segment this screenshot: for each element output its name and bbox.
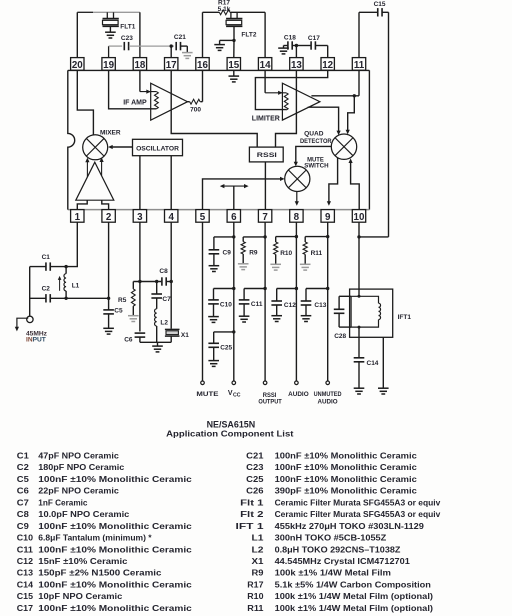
svg-text:C28: C28 <box>334 333 346 340</box>
svg-text:10pF NPO Ceramic: 10pF NPO Ceramic <box>38 592 123 601</box>
label LIMITER <box>252 115 280 122</box>
component list row C1 <box>17 452 120 461</box>
wire pin 4 down to crystal <box>170 222 173 329</box>
svg-text:R11: R11 <box>247 604 264 613</box>
svg-text:AUDIO: AUDIO <box>288 391 309 398</box>
capacitor C7 <box>151 282 171 309</box>
svg-text:CC: CC <box>233 393 241 399</box>
wire pin 3 down <box>139 222 141 331</box>
svg-text:MIXER: MIXER <box>100 129 121 136</box>
resistor limiter internal feedback <box>284 93 288 110</box>
capacitor C15 <box>359 1 389 237</box>
component list row C26 <box>246 487 417 496</box>
svg-text:Ceramic Filter Murata SFG455A3: Ceramic Filter Murata SFG455A3 or equiv <box>275 510 441 519</box>
svg-text:DETECTOR: DETECTOR <box>300 138 332 145</box>
ground left of C18 <box>278 48 289 54</box>
wire pin 5 to MUTE terminal <box>201 222 205 384</box>
wire amp to pin 1 <box>77 200 87 209</box>
ground left of pin 15 <box>214 45 225 51</box>
svg-text:100k ±1% 1/4W Metal Film (opti: 100k ±1% 1/4W Metal Film (optional) <box>275 604 434 613</box>
svg-text:8: 8 <box>294 212 300 223</box>
svg-text:3: 3 <box>137 212 143 223</box>
pin 4 <box>165 210 178 223</box>
wire pin 6 stub with double arrow <box>220 184 249 210</box>
wire pin 1 to input tank <box>64 222 77 268</box>
wire input left rail <box>29 267 31 317</box>
svg-text:C13: C13 <box>17 569 34 578</box>
pin 15 <box>227 58 240 71</box>
svg-text:C7: C7 <box>17 498 30 507</box>
wire node to quad detector right input <box>346 96 355 135</box>
wire amp to mixer arrows <box>85 157 103 177</box>
svg-text:C1: C1 <box>17 452 30 461</box>
wire pin 6 to VCC terminal <box>232 222 236 384</box>
resistor R5 <box>118 282 135 316</box>
node FLT2/pin15 junction <box>232 39 235 58</box>
capacitor C5 <box>103 298 123 328</box>
wire oscillator bottom node <box>140 342 171 346</box>
svg-text:L2: L2 <box>252 545 265 554</box>
svg-text:IF AMP: IF AMP <box>123 100 147 107</box>
mute switch circle <box>285 166 310 191</box>
wire quad detector output to pin 9 <box>327 158 338 206</box>
resistor R17 5.1k <box>203 0 266 58</box>
label MUTE SWITCH <box>304 157 329 170</box>
svg-text:IFT 1: IFT 1 <box>236 522 265 531</box>
svg-text:Ceramic Filter Murata SFG455A3: Ceramic Filter Murata SFG455A3 or equiv <box>275 498 441 507</box>
pin 9 <box>321 210 334 223</box>
wire mute switch output to pin 8 <box>295 192 299 206</box>
svg-text:X1: X1 <box>181 332 189 339</box>
ground under C25 <box>208 361 219 367</box>
svg-text:OUTPUT: OUTPUT <box>258 398 282 405</box>
svg-text:L1: L1 <box>252 534 265 543</box>
pin 8 <box>290 210 303 223</box>
component list row C12 <box>17 557 128 566</box>
svg-text:15: 15 <box>228 60 239 71</box>
svg-text:C23: C23 <box>246 463 264 472</box>
svg-text:Application Component List: Application Component List <box>166 428 293 438</box>
svg-text:R5: R5 <box>118 297 127 304</box>
wire pin 2 down <box>107 222 110 300</box>
ground under C10 <box>208 317 219 323</box>
ground under C11 <box>239 316 250 322</box>
component list row C8 <box>17 510 130 519</box>
component list row C6 <box>17 487 120 496</box>
node pin 13 top junction <box>295 44 298 58</box>
ground under C12 <box>271 316 282 322</box>
node 45MHz input terminal <box>27 316 33 322</box>
svg-text:C15: C15 <box>374 1 386 8</box>
inductor L1 <box>64 267 80 299</box>
svg-text:L1: L1 <box>72 282 80 289</box>
svg-text:IFT1: IFT1 <box>398 314 412 321</box>
ground under R9 <box>238 264 249 270</box>
input amp triangle <box>76 162 114 200</box>
svg-text:5.1k: 5.1k <box>218 6 231 13</box>
pin 13 <box>290 58 303 71</box>
component list row X1 <box>252 557 411 566</box>
svg-text:100nF ±10% Monolithic Ceramic: 100nF ±10% Monolithic Ceramic <box>275 452 418 461</box>
wire pin 8 to AUDIO terminal <box>295 222 299 384</box>
op-amp LIMITER triangle <box>282 83 320 120</box>
pin 6 <box>227 210 240 223</box>
wire RSSI output to pin 7 <box>264 162 266 210</box>
svg-text:C11: C11 <box>17 545 34 554</box>
wire pin 9 to UNMUTED AUDIO terminal <box>326 222 330 384</box>
component list row R11 <box>247 604 433 613</box>
crystal X1 <box>165 329 189 342</box>
svg-text:C17: C17 <box>17 604 34 613</box>
svg-text:6.8μF Tantalum (minimum) *: 6.8μF Tantalum (minimum) * <box>38 534 152 543</box>
label AUDIO <box>288 391 309 398</box>
svg-text:C1: C1 <box>42 254 51 261</box>
wire pin 11 to limiter output node <box>311 70 359 97</box>
svg-text:100nF ±10% Monolithic Ceramic: 100nF ±10% Monolithic Ceramic <box>275 475 418 484</box>
svg-text:Flt 2: Flt 2 <box>240 510 264 519</box>
label 45MHz INPUT <box>26 330 48 343</box>
capacitor C8 <box>159 268 171 286</box>
wire pin 17 to RSSI left lead <box>171 70 257 147</box>
svg-text:SWITCH: SWITCH <box>304 163 329 170</box>
capacitor C18 <box>284 35 297 50</box>
svg-text:R10: R10 <box>280 250 292 257</box>
wire pin 5 to mute switch arrow <box>203 177 285 210</box>
wire pin 19 to IF amp lower input <box>109 70 157 108</box>
component list row Flt 1 <box>240 498 441 507</box>
ground under C13 <box>301 316 312 322</box>
svg-text:180pF NPO Ceramic: 180pF NPO Ceramic <box>38 463 125 472</box>
component list row C21 <box>246 452 417 461</box>
op-amp U1 IC body outline NE/SA615N <box>68 70 370 209</box>
svg-text:C9: C9 <box>223 250 232 257</box>
svg-text:390pF ±10% Monolithic Ceramic: 390pF ±10% Monolithic Ceramic <box>275 487 418 496</box>
wire pin 12 to limiter lower input <box>255 70 327 109</box>
capacitor C2 <box>30 286 66 303</box>
capacitor C11 <box>239 289 265 317</box>
svg-text:C15: C15 <box>17 592 34 601</box>
wire pin 7 to RSSI OUTPUT terminal <box>263 222 267 384</box>
pin 14 <box>258 58 271 71</box>
capacitor C17 <box>296 35 327 58</box>
ceramic filter FLT1 <box>103 12 136 32</box>
capacitor C13 <box>301 289 328 316</box>
capacitor C21 <box>174 34 187 53</box>
svg-text:10.0pF NPO Ceramic: 10.0pF NPO Ceramic <box>38 510 130 519</box>
capacitor C28 <box>334 296 351 340</box>
ground oscillator network <box>152 346 163 352</box>
svg-text:C12: C12 <box>17 557 34 566</box>
label MUTE <box>196 391 219 398</box>
pin 10 <box>352 210 365 223</box>
capacitor C12 <box>271 289 296 316</box>
svg-text:INPUT: INPUT <box>26 336 46 343</box>
svg-text:5.1k ±5% 1/4W Carbon Compositi: 5.1k ±5% 1/4W Carbon Composition <box>275 580 431 589</box>
ground under R10 <box>270 264 281 270</box>
svg-text:C14: C14 <box>17 580 34 589</box>
svg-text:RSSI: RSSI <box>257 152 277 159</box>
wire top rail pin20-pin18 <box>77 11 140 13</box>
pin 12 <box>321 58 334 71</box>
pin 11 <box>352 58 365 71</box>
svg-text:R9: R9 <box>252 569 265 578</box>
wire L1 tuning arrow <box>58 276 62 291</box>
component list row C17 <box>17 604 193 613</box>
svg-text:FLT2: FLT2 <box>241 32 256 39</box>
label UNMUTED AUDIO <box>314 391 342 405</box>
svg-text:1nF Ceramic: 1nF Ceramic <box>38 498 88 507</box>
component list row R9 <box>252 569 392 578</box>
svg-text:R17: R17 <box>247 580 264 589</box>
wire ground tap left of FLT2 <box>220 40 234 44</box>
pin 5 <box>196 210 209 223</box>
svg-text:C6: C6 <box>124 336 133 343</box>
resistor R9 <box>241 237 265 264</box>
component list row C15 <box>17 592 123 601</box>
svg-text:R9: R9 <box>249 250 258 257</box>
component list row L1 <box>252 534 387 543</box>
pin 2 <box>102 210 115 223</box>
svg-text:15nF ±10% Ceramic: 15nF ±10% Ceramic <box>38 557 128 566</box>
svg-text:4: 4 <box>168 212 174 223</box>
label Application Component List <box>166 428 293 438</box>
svg-text:R10: R10 <box>247 592 264 601</box>
capacitor C1 <box>30 254 66 271</box>
component list row C13 <box>17 569 162 578</box>
capacitor C9 <box>209 237 234 266</box>
svg-text:2: 2 <box>106 212 112 223</box>
svg-text:C6: C6 <box>17 487 30 496</box>
pin 1 <box>71 210 84 223</box>
svg-text:20: 20 <box>72 60 83 71</box>
svg-text:AUDIO: AUDIO <box>318 398 338 405</box>
svg-text:X1: X1 <box>252 557 265 566</box>
svg-text:1: 1 <box>75 212 81 223</box>
svg-text:300nH TOKO #5CB-1055Z: 300nH TOKO #5CB-1055Z <box>275 534 387 543</box>
mixer circle <box>83 135 108 160</box>
svg-text:14: 14 <box>260 60 271 71</box>
svg-text:22pF NPO Ceramic: 22pF NPO Ceramic <box>38 487 119 496</box>
label IF AMP <box>123 100 147 107</box>
svg-text:10: 10 <box>354 212 365 223</box>
component list row L2 <box>252 545 401 554</box>
pin 17 <box>165 58 178 71</box>
component list row C9 <box>17 522 193 531</box>
wire input arrow <box>15 318 28 331</box>
svg-text:MUTE: MUTE <box>196 391 219 398</box>
ground pin 15 internal <box>229 70 240 82</box>
wire amp to pin 2 <box>102 200 109 209</box>
label MIXER <box>100 129 121 136</box>
label title NE/SA615N <box>207 420 256 430</box>
svg-text:C25: C25 <box>246 475 264 484</box>
svg-text:100nF ±10% Monolithic Ceramic: 100nF ±10% Monolithic Ceramic <box>38 580 192 589</box>
svg-text:C2: C2 <box>42 286 51 293</box>
op-amp IF AMP triangle <box>151 83 188 120</box>
ground under FLT1 <box>105 32 116 38</box>
wire pin 20 to mixer <box>77 70 93 134</box>
svg-text:UNMUTED: UNMUTED <box>314 391 342 398</box>
pin 3 <box>133 210 146 223</box>
svg-text:700: 700 <box>190 107 201 114</box>
svg-text:C21: C21 <box>246 452 264 461</box>
wire pin 17 to C21 node <box>170 44 173 57</box>
svg-text:OSCILLATOR: OSCILLATOR <box>136 145 179 152</box>
svg-text:LIMITER: LIMITER <box>252 115 280 122</box>
svg-text:C21: C21 <box>174 34 186 41</box>
svg-text:C8: C8 <box>159 268 168 275</box>
svg-text:C10: C10 <box>220 301 232 308</box>
svg-text:12: 12 <box>322 60 333 71</box>
ground under C21 <box>182 53 193 59</box>
svg-text:7: 7 <box>262 212 268 223</box>
ground under C5 <box>103 328 114 334</box>
label VCC <box>228 390 241 399</box>
ground under C9 <box>209 266 220 272</box>
svg-text:13: 13 <box>291 60 302 71</box>
svg-text:6: 6 <box>231 212 237 223</box>
pin 20 <box>71 58 84 71</box>
svg-text:47pF NPO Ceramic: 47pF NPO Ceramic <box>38 452 119 461</box>
svg-text:11: 11 <box>354 60 365 71</box>
svg-text:100nF ±10% Monolithic Ceramic: 100nF ±10% Monolithic Ceramic <box>38 604 192 613</box>
svg-text:C12: C12 <box>284 302 296 309</box>
svg-text:100nF ±10% Monolithic Ceramic: 100nF ±10% Monolithic Ceramic <box>38 475 192 484</box>
svg-text:QUAD: QUAD <box>304 131 324 138</box>
quad detector circle <box>331 134 356 159</box>
wire oscillator to pin 3 <box>139 156 141 210</box>
svg-text:16: 16 <box>197 60 208 71</box>
resistor R11 <box>303 237 328 265</box>
svg-text:100k ±1% 1/4W Metal Film: 100k ±1% 1/4W Metal Film <box>275 569 391 578</box>
svg-text:C8: C8 <box>17 510 30 519</box>
label QUAD DETECTOR <box>300 131 332 145</box>
svg-text:19: 19 <box>103 60 114 71</box>
pin 18 <box>133 58 146 71</box>
transformer IFT1 <box>350 289 412 337</box>
component list row C2 <box>17 463 125 472</box>
ground under C14 <box>354 388 365 394</box>
wire IFT1 secondary to ground <box>382 337 384 388</box>
inductor L2 <box>155 309 169 343</box>
component list row C7 <box>17 498 88 507</box>
svg-text:C10: C10 <box>17 534 34 543</box>
wire oscillator to pin 4 <box>170 156 172 210</box>
svg-text:9: 9 <box>325 212 331 223</box>
component list row C10 <box>17 534 153 543</box>
node L1 bottom junction <box>64 297 108 300</box>
svg-text:C23: C23 <box>121 35 133 42</box>
wire pin 20 to top rail <box>76 12 78 57</box>
svg-text:C9: C9 <box>17 522 30 531</box>
RSSI block <box>249 147 283 162</box>
pin 7 <box>258 210 271 223</box>
wire pin 13 to RSSI right lead <box>276 70 297 147</box>
svg-text:C26: C26 <box>246 487 264 496</box>
resistor IF amp internal feedback <box>154 92 158 109</box>
wire limiter output to quad detector left input <box>308 107 341 135</box>
ground under R11 <box>300 264 311 270</box>
capacitor C6 <box>124 333 145 343</box>
svg-text:C14: C14 <box>367 360 379 367</box>
pin 19 <box>102 58 115 71</box>
capacitor C14 <box>354 327 379 388</box>
svg-text:Flt 1: Flt 1 <box>240 498 264 507</box>
svg-text:C5: C5 <box>114 308 123 315</box>
label RSSI OUTPUT <box>258 392 282 406</box>
component list row C25 <box>246 475 417 484</box>
svg-text:17: 17 <box>166 60 177 71</box>
svg-text:18: 18 <box>134 60 145 71</box>
oscillator block <box>133 139 183 155</box>
component list row IFT 1 <box>236 522 425 531</box>
svg-text:C18: C18 <box>284 35 296 42</box>
wire quad detector to mute switch <box>294 146 332 166</box>
ground under R5 <box>128 316 139 322</box>
svg-text:R11: R11 <box>311 250 323 257</box>
svg-text:C13: C13 <box>314 302 326 309</box>
pin 16 <box>196 58 209 71</box>
wire pin 14 to limiter input arrow <box>265 70 286 95</box>
svg-text:150pF ±2% N1500 Ceramic: 150pF ±2% N1500 Ceramic <box>38 569 162 578</box>
component list row C14 <box>17 580 193 589</box>
svg-text:5: 5 <box>200 212 206 223</box>
capacitor C23 <box>109 35 174 58</box>
capacitor C10 <box>208 289 234 317</box>
svg-text:C2: C2 <box>17 463 30 472</box>
wire oscillator to mixer arrow <box>108 145 132 149</box>
svg-text:FLT1: FLT1 <box>120 23 135 30</box>
svg-text:100nF ±10% Monolithic Ceramic: 100nF ±10% Monolithic Ceramic <box>38 545 192 554</box>
capacitor C25 <box>208 332 233 361</box>
svg-text:L2: L2 <box>160 319 168 326</box>
svg-text:C11: C11 <box>251 301 263 308</box>
component list row Flt 2 <box>240 510 441 519</box>
resistor 700 IF amp output <box>188 70 203 113</box>
svg-text:44.545MHz Crystal ICM4712701: 44.545MHz Crystal ICM4712701 <box>275 557 411 566</box>
resistor R10 <box>274 237 297 265</box>
wire pin 10 to quad detector <box>349 158 360 209</box>
ceramic filter FLT2 <box>226 12 257 40</box>
svg-text:0.8μH TOKO 292CNS–T1038Z: 0.8μH TOKO 292CNS–T1038Z <box>275 545 401 554</box>
wire pin 10 junction to IFT1 <box>357 222 388 296</box>
ground under IFT1 <box>378 388 389 394</box>
svg-text:100k ±1% 1/4W Metal Film (opti: 100k ±1% 1/4W Metal Film (optional) <box>275 592 434 601</box>
svg-text:C7: C7 <box>162 296 171 303</box>
svg-text:C25: C25 <box>220 344 232 351</box>
svg-text:100nF ±10% Monolithic Ceramic: 100nF ±10% Monolithic Ceramic <box>275 463 418 472</box>
component list row R10 <box>247 592 433 601</box>
component list row C23 <box>246 463 417 472</box>
svg-text:C5: C5 <box>17 475 30 484</box>
svg-text:100nF ±10% Monolithic Ceramic: 100nF ±10% Monolithic Ceramic <box>38 522 192 531</box>
svg-text:455kHz 270μH TOKO #303LN-1129: 455kHz 270μH TOKO #303LN-1129 <box>275 522 425 531</box>
component list row C5 <box>17 475 193 484</box>
component list row C11 <box>17 545 193 554</box>
component list row R17 <box>247 580 431 589</box>
wire top rail down to pin 18 <box>139 12 141 57</box>
wire oscillator node A <box>133 280 161 283</box>
svg-text:C17: C17 <box>308 35 320 42</box>
wire pin 18 to IF amp input arrow <box>140 70 157 93</box>
